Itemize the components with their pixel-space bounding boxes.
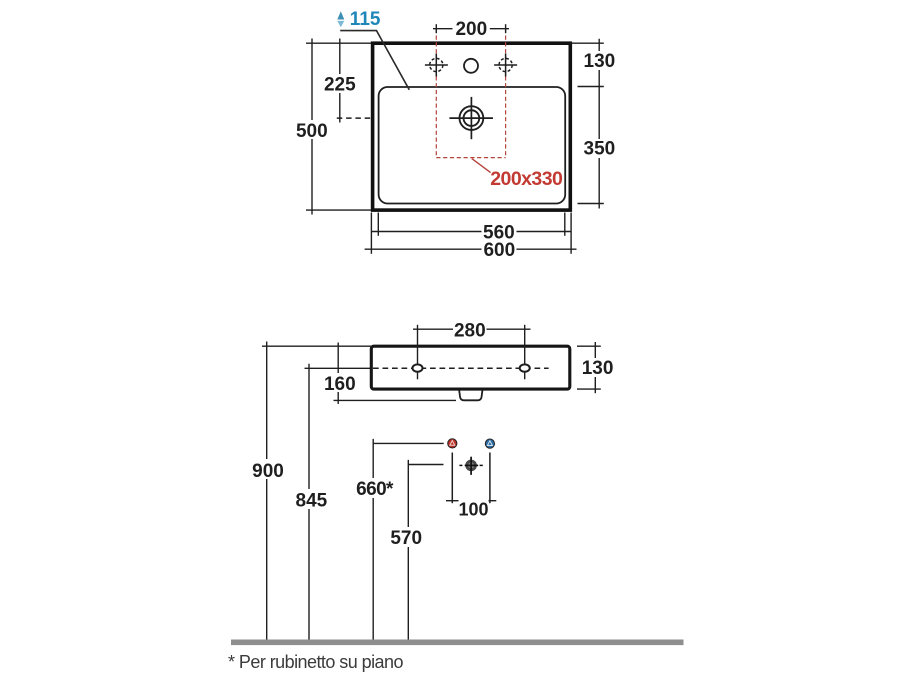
extension line bottom-left (y=210.1) xyxy=(306,209,373,211)
dimension 560 line xyxy=(371,231,571,233)
dimension 130/350 vertical line xyxy=(598,39,600,209)
dimension 900 line xyxy=(266,342,268,640)
svg-text:660*: 660* xyxy=(356,479,394,500)
extension line top-left (y=43.2) xyxy=(306,42,373,44)
dimension 225 line xyxy=(339,39,341,123)
svg-text:350: 350 xyxy=(584,139,616,160)
dimension 225 text xyxy=(323,74,357,96)
mounting hole right xyxy=(520,364,530,371)
570 connector line to drain xyxy=(408,464,443,466)
svg-text:280: 280 xyxy=(454,320,486,341)
svg-text:100: 100 xyxy=(458,500,488,520)
dimension 500 line xyxy=(311,39,313,215)
extension line holes level (845, y=368.3) xyxy=(305,367,372,369)
dimension 845 line xyxy=(308,364,310,640)
supply drop verticals (100 extensions) xyxy=(451,453,453,504)
mounting hole left xyxy=(413,364,423,371)
front 130 extension lines xyxy=(577,345,601,347)
drain outer circle xyxy=(460,106,484,130)
svg-text:200: 200 xyxy=(455,19,487,40)
dimension 130 text (plan) xyxy=(582,51,617,72)
front dashed centerline xyxy=(373,367,549,369)
overflow hole center circle xyxy=(464,59,478,73)
drain inner circle xyxy=(464,110,480,126)
dimension 660 line xyxy=(372,439,374,640)
svg-text:900: 900 xyxy=(252,461,284,482)
outer rim rectangle (600 x 500) xyxy=(373,43,571,210)
red dashed faucet area left line xyxy=(435,29,437,158)
front dimension 130 text xyxy=(580,358,615,379)
inner bowl rounded rectangle (560 x 350) xyxy=(379,87,566,204)
hot water supply symbol (red) xyxy=(448,439,457,448)
front dimension 130 line xyxy=(594,342,596,393)
dimension 900 text xyxy=(250,459,286,482)
label 115 leader line xyxy=(340,31,409,90)
red dashed faucet area right line xyxy=(505,29,507,158)
dimension 660* text xyxy=(355,478,395,500)
dimension 160 text xyxy=(322,373,357,395)
svg-text:570: 570 xyxy=(390,528,422,549)
basin centerline dashed (drain level) xyxy=(337,117,450,119)
faucet hole left (dashed circle with crosshair) xyxy=(425,54,448,77)
mounting hole verticals (280 extensions) xyxy=(417,325,419,380)
svg-text:130: 130 xyxy=(582,358,614,379)
extension line stub bottom (160, y=400.4) xyxy=(334,399,457,401)
cold water supply symbol (blue) xyxy=(485,439,494,448)
front body rectangle (600 x 130) xyxy=(371,346,570,389)
svg-text:845: 845 xyxy=(296,490,328,511)
waste drain symbol (gray) xyxy=(459,457,482,475)
svg-text:115: 115 xyxy=(350,9,381,30)
svg-text:130: 130 xyxy=(584,51,616,72)
red dashed faucet area bottom line xyxy=(436,157,505,159)
svg-text:200x330: 200x330 xyxy=(490,168,563,190)
dimension 570 line xyxy=(407,460,409,640)
dimension 100 line xyxy=(446,500,496,502)
dimension 500 text xyxy=(295,120,329,142)
dimension 570 text xyxy=(389,527,425,549)
dimension 160 line xyxy=(337,343,339,405)
bottom extension verticals 600 xyxy=(370,213,372,254)
label 115 arrow icon xyxy=(337,11,344,27)
floor bar xyxy=(231,640,684,646)
svg-text:500: 500 xyxy=(296,121,328,142)
red leader line xyxy=(472,159,491,173)
svg-text:600: 600 xyxy=(483,240,515,261)
right extension lines (130 / 350) xyxy=(570,42,604,44)
svg-text:160: 160 xyxy=(324,374,356,395)
faucet hole right (dashed circle with crosshair) xyxy=(494,54,517,77)
svg-text:* Per rubinetto su piano: * Per rubinetto su piano xyxy=(228,652,403,672)
dimension 600 line xyxy=(365,248,577,250)
svg-text:225: 225 xyxy=(324,75,356,96)
bottom extension verticals 560 xyxy=(377,213,379,236)
dimension 200 (hole spacing) xyxy=(433,24,509,33)
extension line front top (y=346.2) xyxy=(262,345,371,347)
660 connector line to supplies xyxy=(373,442,444,444)
dimension 845 text xyxy=(293,489,329,511)
drain stub xyxy=(459,390,482,400)
dimension 350 text xyxy=(582,139,617,160)
dimension 280 line xyxy=(413,328,531,330)
drain crosshair xyxy=(449,117,493,119)
